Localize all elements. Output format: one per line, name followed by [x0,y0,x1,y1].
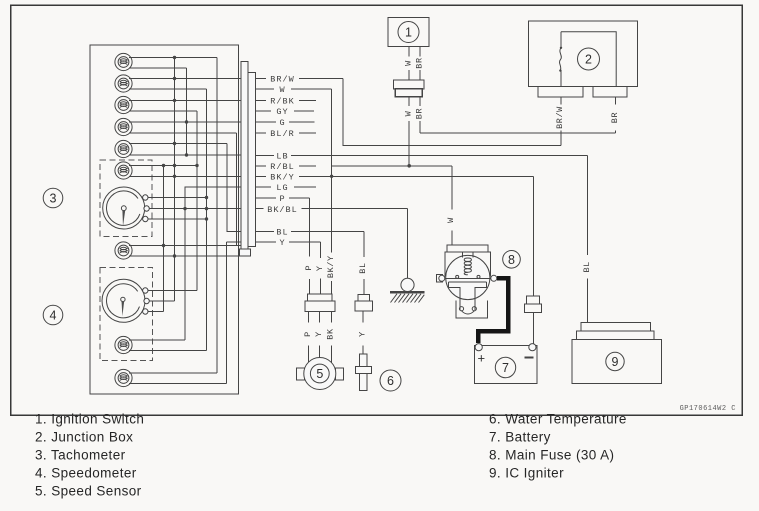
speedometer terminal pin s1 [143,288,148,293]
main fuse 8 bottom tab [456,300,488,318]
svg-text:6: 6 [387,374,394,388]
wire row 2 stubs [256,88,332,90]
wire BR from ignition switch to connector [419,47,421,80]
svg-text:BL: BL [582,261,592,272]
svg-text:7. Battery: 7. Battery [489,430,551,445]
label BL at igniter [582,261,592,272]
wire Y connector to sensor [319,312,321,358]
speedometer terminal pin s2 [144,298,149,303]
wire row 5 stubs [256,121,315,123]
svg-text:LB: LB [276,152,288,162]
wire row 6 stubs [256,132,317,134]
wire harness vertical V1 common [149,58,174,302]
IC igniter 9 top plate [581,323,651,332]
svg-text:W: W [403,60,413,66]
ground ball [401,278,414,291]
svg-text:P: P [279,194,285,204]
svg-text:R/BK: R/BK [270,97,294,107]
wire row 4 stubs [256,110,315,112]
wire BK/BL to ground [407,209,409,279]
callout 9 IC igniter [606,352,624,370]
battery positive terminal [475,344,482,351]
wire W below connector to junction dot [408,97,410,166]
indicator bulb L2 [115,75,132,92]
ignition switch connector upper half [394,80,425,89]
wire harness vertical V6b to Y row [227,242,242,384]
wire BL to IC igniter [586,155,588,322]
main fuse 8 holder top [447,245,488,252]
wire BK/Y row down to battery connector [533,176,535,295]
speedometer terminal pin s3 [143,309,148,314]
wire bulb L3 bottom [129,110,197,112]
wire speedometer pin s3 [148,311,164,313]
svg-text:1: 1 [405,26,412,40]
main fuse 8 internal spring [463,252,474,275]
wire row 7 LB feed to igniter [256,154,588,156]
indicator bulb L1 [115,53,132,70]
svg-text:6. Water Temperature: 6. Water Temperature [489,412,627,427]
svg-text:Y: Y [314,331,324,337]
svg-text:Y: Y [315,265,325,271]
wire row 10 LG stubs [256,186,317,188]
wire Y down to speed sensor connector [320,242,322,294]
junction box 2 inner circuit with fuse squiggle [559,32,616,87]
connector bar J1 right half [248,73,256,247]
wire harness vertical V7 [236,133,238,246]
svg-text:BK/Y: BK/Y [326,255,336,278]
svg-text:2: 2 [585,53,592,67]
water temperature wire BL down [363,232,365,295]
legend text [35,412,627,499]
label BK/Y above connector [326,255,336,278]
wire bulb L1 top [129,57,217,59]
wire harness vertical V4 [206,89,208,351]
svg-text:W: W [279,85,285,95]
svg-text:P: P [304,265,314,271]
label BK lower [326,328,336,340]
wire BR from junction box tab [615,97,617,133]
wire bulb L7 bottom [129,255,240,257]
tachometer terminal pin t2 [144,206,149,211]
wire connector to battery negative [533,313,535,344]
wire bulb L2 top [129,78,241,80]
svg-text:1. Ignition Switch: 1. Ignition Switch [35,412,144,427]
border frame [11,5,743,415]
wire BR below connector [419,97,421,133]
wire harness vertical V6a to BL row [227,144,241,232]
wire row 9 BK/Y feed to battery negative [256,175,534,178]
label BR/W vertical [555,106,565,129]
svg-text:GP170614W2 C: GP170614W2 C [680,405,736,413]
svg-text:Y: Y [279,238,285,248]
svg-text:8. Main Fuse (30 A): 8. Main Fuse (30 A) [489,448,614,463]
tachometer dashed housing [100,160,152,237]
label P above connector [304,265,314,271]
wire bulb L6 bottom [129,175,241,177]
wire label GY (row 4) [276,107,288,117]
label Y lower [314,331,324,337]
junction box 2 outer case [529,21,638,87]
wire branch R/BL row to main fuse [332,164,452,168]
ignition switch box 1 [388,17,429,46]
thick battery positive cable [478,278,508,343]
svg-text:R/BL: R/BL [270,162,294,172]
svg-text:W: W [446,217,456,223]
main fuse 8 contact bar [444,275,491,278]
svg-text:BK/BL: BK/BL [267,205,298,215]
svg-text:BR: BR [415,108,425,119]
label W at fuse [446,217,456,223]
indicator bulb L9 [115,369,132,386]
wire bulb L1 bottom [129,67,187,69]
label W upper [403,60,413,66]
svg-text:5: 5 [316,367,323,381]
meter assembly box [90,45,239,394]
tachometer terminal pin t1 [143,195,148,200]
svg-text:BR: BR [415,57,425,68]
connector bar J1 left half [241,62,248,250]
wire P connector to sensor [308,312,310,363]
label Y above connector [315,265,325,271]
wire label R/BL (row 8) [270,162,294,172]
label BR upper [415,57,425,68]
speed sensor connector lower half [305,301,335,312]
main fuse 8 round body [446,255,490,299]
speed sensor 5 body [296,358,343,390]
wire label BL (row 13) [276,228,288,238]
label BL above WT connector [358,262,368,273]
junction box 2 tab BR/W [538,87,583,97]
wire bulb L2 bottom [129,88,207,90]
wire BR/W link bar row1 to junction box [343,79,561,146]
wire P down to speed sensor connector [309,198,311,294]
svg-text:4: 4 [50,309,57,323]
wire speedometer pin s1 [148,290,197,292]
callout 6 water temperature [380,370,401,391]
wire tachometer pin t1 [148,197,207,199]
water temperature sensor 6 body [356,354,372,390]
battery 7 case [475,345,537,383]
svg-text:BL/R: BL/R [270,129,294,139]
main fuse 8 left terminal tab [436,275,445,282]
indicator bulb L7 [115,242,132,259]
svg-text:9. IC Igniter: 9. IC Igniter [489,466,564,481]
wire Y to WT sensor [362,311,364,354]
wire label W (row 2) [279,85,285,95]
svg-text:W: W [403,110,413,116]
svg-text:4. Speedometer: 4. Speedometer [35,466,137,481]
speed sensor connector upper half [307,294,332,301]
svg-text:3: 3 [50,192,57,206]
callout 7 battery [495,357,515,377]
wire row 1 stubs [256,78,344,80]
svg-text:BR/W: BR/W [555,106,565,129]
indicator bulb L5 [115,140,132,157]
main fuse 8 holder body [445,252,490,276]
svg-text:5. Speed Sensor: 5. Speed Sensor [35,484,142,499]
svg-text:7: 7 [502,361,509,375]
wire row 12 BK/BL feed to ground [256,208,408,210]
ground plate and hatching [390,292,425,302]
wire harness vertical V2 [186,68,188,155]
wire bulb L4 top [129,121,241,123]
svg-text:BR/W: BR/W [270,75,294,85]
svg-text:2. Junction Box: 2. Junction Box [35,430,133,445]
svg-text:BR: BR [610,112,620,123]
svg-text:P: P [303,331,313,337]
speedometer dashed housing [100,268,153,361]
wire harness vertical V8 to LG row [185,187,241,340]
wire tachometer pin t3 [148,218,207,220]
wire label BK/Y (row 9) [270,173,294,183]
wire row 3 stubs [256,99,317,101]
wire BR/W from junction box tab [560,97,562,146]
svg-text:LG: LG [276,183,288,193]
wire harness vertical V3 [196,111,198,291]
IC igniter 9 main case [572,340,662,384]
callout 4 speedometer [43,305,63,325]
connector above battery negative lower half [525,304,542,313]
tachometer terminal pin t3 [143,216,148,221]
battery negative terminal [529,344,536,351]
svg-text:GY: GY [276,107,288,117]
wire row 11 P feed to speed sensor [256,197,310,199]
wire bulb L9 bottom [129,383,227,385]
wire BK connector to sensor [330,312,332,363]
junction dots in harness [162,56,208,258]
tachometer gauge body [103,187,145,229]
label W lower [403,110,413,116]
svg-text:BK: BK [326,328,336,340]
wire bulb L9 top [129,372,217,374]
svg-text:BL: BL [358,262,368,273]
label BR vertical [610,112,620,123]
callout 1 ignition switch [398,22,419,43]
wire label R/BK (row 3) [270,97,294,107]
label Y at WT sensor [358,331,368,337]
wire row 14 Y feed to speed sensor [256,241,321,243]
wire W from ignition switch to connector [408,47,410,80]
wire bulb L5 bottom [129,154,241,156]
wire label LG (row 10) [276,183,288,193]
svg-text:Y: Y [358,331,368,337]
main fuse 8 right terminal [491,275,497,281]
callout 2 junction box [578,48,600,70]
wire bulb L5 top [129,143,227,145]
svg-text:BK/Y: BK/Y [270,173,294,183]
svg-text:+: + [478,351,486,366]
svg-text:8: 8 [508,253,515,267]
wire tachometer pin t2 [149,208,241,210]
wire label G (row 5) [279,118,285,128]
wire harness vertical V5 [216,58,218,374]
speedometer illumination bulb L8 [115,336,132,353]
wire label BL/R (row 6) [270,129,294,139]
callout 3 tachometer [43,188,63,208]
battery plus sign [478,351,486,366]
wire label P (row 11) [279,194,285,204]
connector bar J1 bottom step [240,249,251,256]
svg-text:G: G [279,118,285,128]
label BR lower [415,108,425,119]
water temperature connector upper half [358,295,370,302]
callout 8 main fuse [503,250,521,268]
wire label BR/W (row 1) [270,75,294,85]
wire bulb L4 bottom [129,132,237,134]
wire bulb L8 top [129,339,185,341]
svg-text:9: 9 [612,355,619,369]
main fuse 8 element pants [449,282,487,310]
wire W row2 down to speed sensor BK/Y [331,89,333,294]
water temperature connector lower half [355,301,372,311]
label P lower [303,331,313,337]
connector above battery negative upper half [527,296,540,304]
speedometer gauge body [102,279,145,322]
svg-text:BL: BL [276,228,288,238]
ignition switch connector lower half [395,89,422,97]
wire s3 riser [163,166,165,312]
wire label BK/BL (row 12) [267,205,298,215]
wire BR link ignition to junction box [420,132,616,134]
wire bulb L8 bottom [129,350,207,352]
battery minus sign [525,357,534,359]
indicator bulb L3 [115,96,132,113]
wire speedometer pin s2 [149,300,174,302]
svg-text:3. Tachometer: 3. Tachometer [35,448,126,463]
indicator bulb L4 [115,118,132,135]
wire row 13 BL feed to water temperature [256,231,365,233]
junction box 2 tab BR [593,87,627,97]
IC igniter 9 middle plate [577,331,655,340]
tachometer illumination bulb L6 [115,162,132,179]
wire bulb L6 top [129,165,197,167]
wire W down to main fuse [451,166,453,245]
wire row 8 R/BL stub [256,165,317,167]
wire bulb L7 top [129,245,241,247]
wire bulb L3 top [129,99,241,101]
wire label Y (row 14) [279,238,285,248]
wire label LB (row 7) [276,152,288,162]
